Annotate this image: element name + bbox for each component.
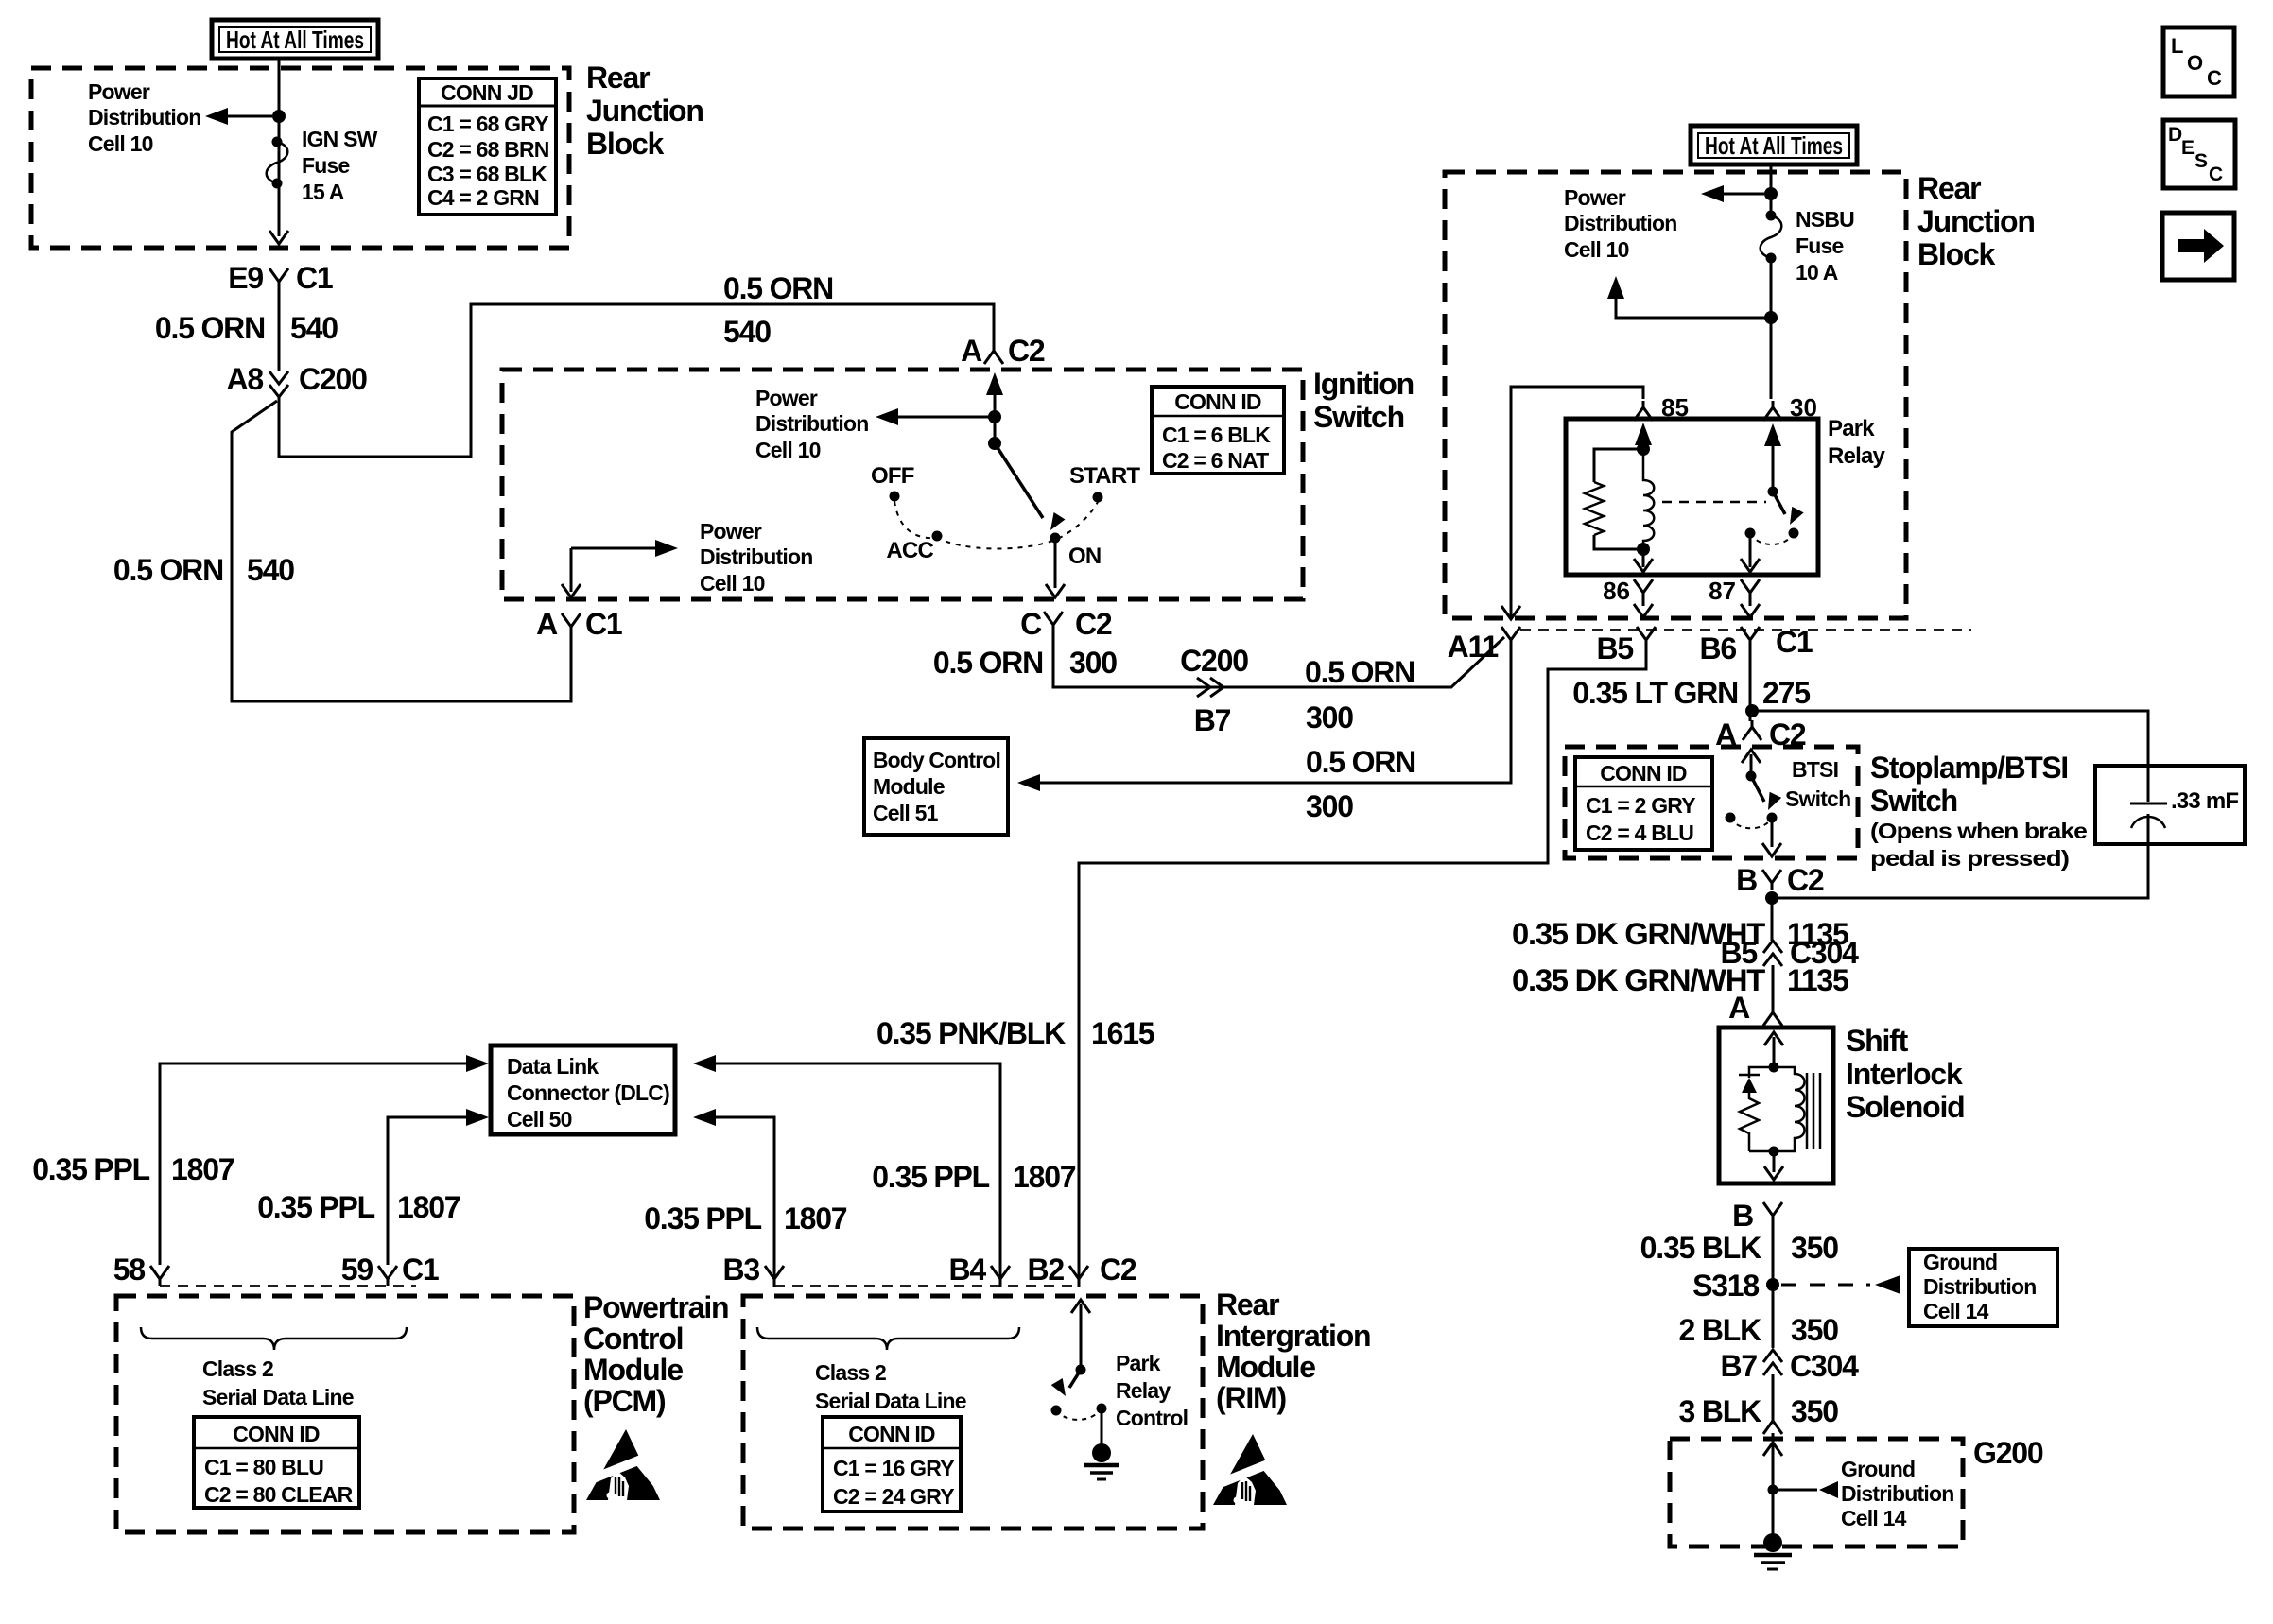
svg-text:CONN ID: CONN ID xyxy=(848,1422,935,1446)
svg-text:C: C xyxy=(1020,607,1042,641)
svg-text:0.5 ORN: 0.5 ORN xyxy=(723,271,833,305)
svg-text:3 BLK: 3 BLK xyxy=(1679,1394,1762,1428)
connector 58 xyxy=(113,1253,169,1287)
A11 entry arrow at block edge xyxy=(1501,606,1520,619)
label Park Relay Control xyxy=(1116,1351,1188,1430)
svg-text:Power: Power xyxy=(88,79,150,104)
Stoplamp/BTSI dashed box xyxy=(1565,747,1858,858)
svg-text:CONN ID: CONN ID xyxy=(1174,389,1261,414)
wire A8 branch to ignition switch A C1 (0.5 ORN 540) xyxy=(232,401,571,701)
svg-text:G200: G200 xyxy=(1973,1436,2043,1470)
text NSBU Fuse 10 A xyxy=(1796,207,1854,285)
BTSI output wire, arrow at box bottom xyxy=(1771,818,1774,847)
connector A / C2 (ignition input) xyxy=(961,334,1045,368)
resistor loop (left) xyxy=(1594,449,1643,482)
svg-text:CONN JD: CONN JD xyxy=(441,80,533,105)
ESD symbol (RIM) xyxy=(1213,1434,1289,1505)
wire to capacitor (top leg) xyxy=(1752,711,2148,802)
coil output down, arrow at box bottom xyxy=(1642,549,1645,567)
label 0.35 LT GRN 275 xyxy=(1572,676,1810,710)
svg-text:Ignition: Ignition xyxy=(1313,367,1414,401)
svg-text:Control: Control xyxy=(583,1322,683,1356)
mechanical link dashed xyxy=(1662,501,1766,504)
CONN ID table (BTSI) xyxy=(1575,757,1712,850)
wire into solenoid xyxy=(1772,1026,1775,1028)
solenoid entry arrow up xyxy=(1773,1037,1776,1067)
label Rear Intergration Module (RIM) xyxy=(1216,1287,1370,1415)
text Power Distribution Cell 10 (ignition lower) xyxy=(700,519,812,596)
svg-text:B2: B2 xyxy=(1027,1253,1064,1287)
connector A11 xyxy=(1448,627,1520,664)
svg-text:Rear: Rear xyxy=(1216,1287,1279,1322)
dashed contact arc xyxy=(1056,1408,1102,1420)
label Shift Interlock Solenoid xyxy=(1846,1024,1965,1124)
svg-text:A: A xyxy=(1728,991,1750,1025)
svg-text:C200: C200 xyxy=(299,362,367,396)
coil bottom node dot xyxy=(1637,543,1650,556)
switch arm with arrow xyxy=(1069,1370,1081,1388)
text Class 2 Serial Data Line (RIM) xyxy=(815,1360,966,1413)
svg-text:Distribution: Distribution xyxy=(755,411,868,436)
svg-text:Class 2: Class 2 xyxy=(202,1356,273,1381)
relay pin 87 chevron and arrow to block edge xyxy=(1741,579,1760,599)
svg-text:Control: Control xyxy=(1116,1406,1188,1430)
arrow to Power Distribution (right top) xyxy=(1723,193,1764,196)
resistor zigzag (solenoid) xyxy=(1740,1093,1759,1151)
svg-text:ACC: ACC xyxy=(886,538,933,563)
connector A / C2 (BTSI input) xyxy=(1715,717,1806,752)
dashed wire to ground distribution xyxy=(1781,1284,1870,1287)
svg-text:Switch: Switch xyxy=(1313,400,1404,434)
thin dashed connector line C1 row xyxy=(1520,629,1971,631)
svg-text:D: D xyxy=(2168,124,2182,146)
OFF contact xyxy=(890,492,900,502)
svg-text:0.5 ORN: 0.5 ORN xyxy=(155,311,265,345)
svg-text:C304: C304 xyxy=(1790,1349,1859,1383)
wire from Hot box down through block xyxy=(278,57,281,236)
text Power Distribution Cell 10 (top left) xyxy=(88,79,200,156)
svg-text:C2 = 80 CLEAR: C2 = 80 CLEAR xyxy=(204,1482,354,1507)
diode triangle xyxy=(1742,1078,1757,1093)
label 0.5 ORN 540 (left vertical) xyxy=(113,553,294,587)
svg-text:IGN SW: IGN SW xyxy=(302,127,378,151)
svg-text:C1: C1 xyxy=(1776,625,1813,659)
svg-text:Connector (DLC): Connector (DLC) xyxy=(507,1080,669,1105)
solenoid core lines xyxy=(1807,1073,1820,1149)
svg-text:Cell 14: Cell 14 xyxy=(1923,1299,1989,1323)
G200 dashed box xyxy=(1670,1439,1963,1546)
svg-text:300: 300 xyxy=(1069,646,1117,680)
svg-text:Intergration: Intergration xyxy=(1216,1319,1370,1353)
label 0.5 ORN 300 (below C C2) xyxy=(933,646,1117,680)
START contact xyxy=(1093,492,1103,503)
label 0.5 ORN 300 (BCM wire) xyxy=(1306,745,1415,823)
label 0.35 PPL 1807 (right) xyxy=(872,1160,1076,1194)
node dot branch to power distribution arrow up xyxy=(1764,311,1778,324)
svg-text:Interlock: Interlock xyxy=(1846,1057,1963,1091)
svg-text:Serial Data Line: Serial Data Line xyxy=(815,1389,966,1413)
svg-text:15 A: 15 A xyxy=(302,180,344,204)
svg-text:Power: Power xyxy=(755,386,818,410)
ACC feed L-wire with arrows (lower power distribution) xyxy=(571,548,662,592)
svg-text:C200: C200 xyxy=(1180,644,1248,678)
svg-text:Switch: Switch xyxy=(1785,786,1850,811)
svg-text:B3: B3 xyxy=(722,1253,759,1287)
label Ignition Switch xyxy=(1313,367,1414,434)
inline connector C200 B7 (>> on wire) xyxy=(1180,644,1248,737)
arrow down at block bottom edge xyxy=(269,231,288,244)
svg-text:A8: A8 xyxy=(226,362,263,396)
svg-text:540: 540 xyxy=(290,311,338,345)
svg-text:C2 = 4 BLU: C2 = 4 BLU xyxy=(1586,821,1693,845)
Powertrain Control Module dashed box xyxy=(116,1296,574,1532)
svg-text:Power: Power xyxy=(700,519,762,544)
label Powertrain Control Module (PCM) xyxy=(583,1290,728,1418)
capacitor symbol .33 mF xyxy=(2130,788,2238,844)
switch arm to ON xyxy=(995,443,1043,518)
svg-text:1135: 1135 xyxy=(1787,963,1848,997)
svg-text:540: 540 xyxy=(247,553,294,587)
svg-text:Class 2: Class 2 xyxy=(815,1360,886,1385)
svg-text:87: 87 xyxy=(1709,577,1736,605)
relay pin 30 chevron xyxy=(1763,401,1782,421)
solenoid output arrow down xyxy=(1773,1151,1776,1172)
Rear Intergration Module dashed box xyxy=(743,1296,1203,1529)
wire B5 C304 down to solenoid A xyxy=(1772,965,1775,1006)
svg-text:C1 = 2 GRY: C1 = 2 GRY xyxy=(1586,793,1695,818)
svg-text:2 BLK: 2 BLK xyxy=(1679,1313,1762,1347)
svg-text:Shift: Shift xyxy=(1846,1024,1909,1058)
label BTSI Switch xyxy=(1785,757,1850,811)
wire ON down to C C2, arrow down xyxy=(1054,543,1057,588)
RIM connector row: thin dashed xyxy=(774,1285,1079,1287)
svg-text:A: A xyxy=(536,607,558,641)
svg-text:C1: C1 xyxy=(585,607,622,641)
CONN ID table (PCM) xyxy=(194,1417,359,1508)
Hot At All Times box (left) xyxy=(212,20,378,59)
connector B4 xyxy=(948,1253,1010,1287)
svg-text:C2 = 68 BRN: C2 = 68 BRN xyxy=(427,137,549,162)
svg-text:C2: C2 xyxy=(1787,863,1824,897)
wire PCM 58 to DLC (0.35 PPL 1807) xyxy=(160,1063,466,1265)
wire B6 down to A C2 xyxy=(1749,647,1752,721)
solenoid bottom node dot xyxy=(1769,1147,1779,1157)
svg-text:350: 350 xyxy=(1791,1231,1838,1265)
connector B3 xyxy=(722,1253,784,1287)
node: switch pivot dot xyxy=(988,437,1001,450)
connector A (solenoid input) xyxy=(1728,991,1782,1026)
svg-text:CONN ID: CONN ID xyxy=(1600,761,1687,786)
ESD symbol (PCM) xyxy=(586,1429,662,1500)
svg-text:350: 350 xyxy=(1791,1313,1838,1347)
svg-text:Data Link: Data Link xyxy=(507,1054,599,1079)
svg-text:0.5 ORN: 0.5 ORN xyxy=(113,553,223,587)
wire A C2 into switch, arrow up xyxy=(994,378,997,443)
svg-text:Relay: Relay xyxy=(1116,1378,1171,1403)
ground symbol G200 xyxy=(1754,1533,1792,1569)
splice S318 xyxy=(1692,1269,1779,1303)
switch output down, arrow at box bottom xyxy=(1749,533,1752,567)
svg-text:Cell 10: Cell 10 xyxy=(755,438,821,462)
connector A8 / C200 xyxy=(226,362,367,397)
svg-text:Power: Power xyxy=(1564,185,1626,210)
svg-text:Park: Park xyxy=(1116,1351,1161,1375)
svg-text:Body Control: Body Control xyxy=(873,748,1000,772)
svg-text:START: START xyxy=(1069,463,1140,489)
wire into G200 with arrow xyxy=(1772,1433,1775,1543)
svg-text:S: S xyxy=(2195,150,2208,172)
svg-text:Module: Module xyxy=(1216,1350,1315,1384)
connector B5 / C304 xyxy=(1720,936,1859,970)
brace class 2 (PCM) xyxy=(141,1327,407,1350)
ignition switch dashed box xyxy=(502,370,1303,599)
svg-text:Rear: Rear xyxy=(586,60,650,95)
wire A8 to ignition switch A C2 (0.5 ORN 540) xyxy=(279,304,994,457)
svg-text:0.35 PPL: 0.35 PPL xyxy=(257,1190,374,1224)
svg-text:B: B xyxy=(1732,1199,1753,1233)
label 0.35 DK GRN/WHT 1135 (lower) xyxy=(1512,963,1848,997)
svg-text:E: E xyxy=(2181,137,2195,159)
connector E9 / C1 xyxy=(228,261,333,295)
svg-text:B7: B7 xyxy=(1194,703,1231,737)
svg-text:A: A xyxy=(961,334,982,368)
fuse NSBU 10 A xyxy=(1761,211,1782,264)
BTSI switch: entry arrow up xyxy=(1750,754,1753,776)
label 0.35 DK GRN/WHT 1135 (upper) xyxy=(1512,917,1848,951)
relay switch branch: entry arrow up at 30 xyxy=(1772,428,1775,492)
label 0.35 PPL 1807 (far left) xyxy=(32,1152,234,1186)
svg-text:300: 300 xyxy=(1306,700,1353,734)
wire A11 down to BCM line xyxy=(1040,647,1511,783)
node: battery feed dot xyxy=(988,410,1001,423)
node dot inside G200 xyxy=(1768,1485,1778,1495)
svg-text:(Opens when brake: (Opens when brake xyxy=(1870,819,2087,843)
arrowhead at ground distribution box xyxy=(1875,1275,1900,1294)
svg-text:Ground: Ground xyxy=(1841,1457,1915,1481)
CONN ID table (ignition) xyxy=(1152,387,1284,474)
svg-text:Distribution: Distribution xyxy=(700,544,812,569)
svg-text:S318: S318 xyxy=(1692,1269,1759,1303)
CONN JD table xyxy=(419,78,556,215)
svg-text:0.35 LT GRN: 0.35 LT GRN xyxy=(1572,676,1738,710)
wire 85 feed from A11 xyxy=(1511,387,1643,619)
svg-text:B7: B7 xyxy=(1720,1349,1757,1383)
switch arm with arrow xyxy=(1773,492,1785,514)
DESC icon box xyxy=(2163,120,2235,188)
svg-text:0.5 ORN: 0.5 ORN xyxy=(933,646,1043,680)
wire arrow to Power Distribution (left) xyxy=(227,115,272,118)
label 0.35 BLK 350 xyxy=(1640,1231,1839,1265)
svg-text:Module: Module xyxy=(583,1353,683,1387)
relay coil xyxy=(1643,449,1654,549)
svg-text:10 A: 10 A xyxy=(1796,260,1838,285)
svg-text:.33 mF: .33 mF xyxy=(2171,788,2238,814)
svg-text:Serial Data Line: Serial Data Line xyxy=(202,1385,354,1409)
svg-text:1615: 1615 xyxy=(1091,1016,1154,1050)
BTSI pivot dot xyxy=(1746,771,1757,782)
connector B6 / C1 xyxy=(1699,625,1812,665)
svg-text:1807: 1807 xyxy=(171,1152,234,1186)
svg-text:pedal is pressed): pedal is pressed) xyxy=(1870,846,2069,871)
fuse IGN SW 15 A xyxy=(267,137,288,189)
svg-text:Module: Module xyxy=(873,774,945,799)
connector chevron into G200 xyxy=(1763,1414,1782,1434)
svg-text:0.35 PPL: 0.35 PPL xyxy=(872,1160,989,1194)
label Rear Junction Block (right) xyxy=(1917,171,2035,271)
svg-text:(PCM): (PCM) xyxy=(583,1384,666,1418)
svg-text:OFF: OFF xyxy=(871,463,914,489)
svg-text:0.5 ORN: 0.5 ORN xyxy=(1305,655,1414,689)
svg-text:C2: C2 xyxy=(1075,607,1112,641)
ground symbol (RIM) xyxy=(1084,1443,1119,1479)
svg-text:1807: 1807 xyxy=(1013,1160,1076,1194)
svg-text:C1 = 16 GRY: C1 = 16 GRY xyxy=(833,1456,954,1480)
svg-text:O: O xyxy=(2187,51,2203,75)
Ground Distribution Cell 14 box (upper) xyxy=(1909,1249,2057,1326)
svg-text:Junction: Junction xyxy=(586,94,703,128)
svg-text:B6: B6 xyxy=(1699,631,1736,665)
text IGN SW Fuse 15 A xyxy=(302,127,378,204)
node: junction dot above A C2 xyxy=(1745,704,1759,717)
BTSI switch arm xyxy=(1751,776,1764,802)
ON contact xyxy=(1050,533,1061,544)
svg-text:Cell 10: Cell 10 xyxy=(1564,237,1629,262)
wire below fuse xyxy=(1770,258,1773,399)
svg-text:Cell 10: Cell 10 xyxy=(88,131,153,156)
svg-text:Powertrain: Powertrain xyxy=(583,1290,728,1324)
svg-text:350: 350 xyxy=(1791,1394,1838,1428)
svg-text:C4 = 2 GRN: C4 = 2 GRN xyxy=(427,185,539,210)
svg-text:275: 275 xyxy=(1762,676,1810,710)
node: junction dot to power distribution xyxy=(272,110,286,123)
BTSI contacts xyxy=(1726,813,1736,823)
svg-text:NSBU: NSBU xyxy=(1796,207,1854,232)
dashed detent arc OFF-ACC-ON-START xyxy=(894,501,1098,549)
svg-text:Fuse: Fuse xyxy=(302,153,349,178)
capacitor box xyxy=(2095,766,2245,844)
svg-text:540: 540 xyxy=(723,315,771,349)
wire capacitor bottom leg xyxy=(1772,844,2148,898)
svg-text:C2: C2 xyxy=(1008,334,1045,368)
relay pin 86 chevron and arrow to block edge xyxy=(1634,579,1653,599)
label 0.35 PPL 1807 (second) xyxy=(257,1190,460,1224)
LOC icon box xyxy=(2163,27,2234,96)
svg-text:Cell 51: Cell 51 xyxy=(873,801,939,825)
park relay box xyxy=(1566,419,1818,575)
arrow icon box xyxy=(2162,213,2234,280)
wire RIM B3 to DLC (0.35 PPL 1807) xyxy=(716,1117,774,1287)
svg-text:C2 = 24 GRY: C2 = 24 GRY xyxy=(833,1484,954,1509)
connector B7 / C304 xyxy=(1720,1349,1859,1383)
svg-text:Distribution: Distribution xyxy=(1841,1481,1953,1506)
text Ground Distribution Cell 14 (G200) xyxy=(1841,1457,1953,1530)
coil top node dot xyxy=(1637,442,1650,456)
svg-text:Solenoid: Solenoid xyxy=(1846,1090,1965,1124)
svg-text:300: 300 xyxy=(1306,789,1353,823)
svg-text:C: C xyxy=(2207,66,2222,90)
svg-text:Rear: Rear xyxy=(1917,171,1981,205)
relay pin 85 chevron xyxy=(1634,401,1653,421)
label 0.35 PNK/BLK 1615 xyxy=(876,1016,1154,1050)
wire contact to ground xyxy=(1101,1408,1103,1446)
label Rear Junction Block (left) xyxy=(586,60,703,161)
svg-text:Junction: Junction xyxy=(1917,204,2035,238)
svg-text:C1 = 68 GRY: C1 = 68 GRY xyxy=(427,112,548,136)
svg-text:Ground: Ground xyxy=(1923,1250,1997,1274)
text Power Distribution Cell 10 (ignition upper) xyxy=(755,386,868,462)
svg-text:0.35 PPL: 0.35 PPL xyxy=(644,1201,761,1235)
CONN ID table (RIM) xyxy=(823,1417,961,1512)
node: junction dot below B C2 xyxy=(1765,891,1778,905)
svg-text:Cell 14: Cell 14 xyxy=(1841,1506,1907,1530)
label 2 BLK 350 xyxy=(1679,1313,1839,1347)
connector B (solenoid output) xyxy=(1732,1199,1782,1233)
wire PCM 59 to DLC (0.35 PPL 1807) xyxy=(388,1117,466,1265)
wire down to B5 C304 xyxy=(1771,898,1774,941)
contacts xyxy=(1051,1406,1062,1416)
Hot At All Times box (right) xyxy=(1691,126,1857,164)
Body Control Module box xyxy=(864,738,1008,835)
svg-text:Cell 50: Cell 50 xyxy=(507,1107,572,1132)
brace class 2 (RIM) xyxy=(757,1327,1019,1350)
label 3 BLK 350 xyxy=(1679,1394,1839,1428)
park relay control switch: entry arrow up xyxy=(1080,1304,1083,1370)
svg-text:Fuse: Fuse xyxy=(1796,233,1843,258)
label Park Relay xyxy=(1828,416,1885,469)
wire from Hot box 2 down xyxy=(1770,163,1773,216)
svg-text:Cell 10: Cell 10 xyxy=(700,571,765,596)
svg-text:Park: Park xyxy=(1828,416,1875,441)
svg-text:86: 86 xyxy=(1603,577,1630,605)
svg-text:Relay: Relay xyxy=(1828,443,1885,469)
diode+resistor branch (left) xyxy=(1749,1067,1774,1078)
svg-text:Switch: Switch xyxy=(1870,784,1957,818)
svg-text:Block: Block xyxy=(586,127,665,161)
svg-text:ON: ON xyxy=(1068,544,1101,569)
arrow to Power Distribution (ignition, upper) xyxy=(898,416,995,419)
relay coil branch: entry arrow up xyxy=(1642,428,1645,449)
diode bar xyxy=(1739,1074,1760,1077)
rear junction block dashed box (left) xyxy=(31,68,569,248)
svg-text:Hot At All Times: Hot At All Times xyxy=(226,26,364,54)
svg-text:B5: B5 xyxy=(1596,631,1633,665)
rear junction block dashed box (right) xyxy=(1445,172,1906,618)
svg-text:Block: Block xyxy=(1917,237,1996,271)
text Power Distribution Cell 10 (right) xyxy=(1564,185,1676,262)
svg-text:59: 59 xyxy=(341,1253,373,1287)
wire E9 to A8 xyxy=(278,288,281,371)
label 0.5 ORN 300 (right of C200) xyxy=(1305,655,1414,734)
svg-text:CONN ID: CONN ID xyxy=(233,1422,320,1446)
svg-text:C1: C1 xyxy=(402,1253,439,1287)
connector B2 / C2 xyxy=(1027,1253,1136,1287)
svg-text:Stoplamp/BTSI: Stoplamp/BTSI xyxy=(1870,751,2068,785)
svg-text:BTSI: BTSI xyxy=(1792,757,1838,782)
svg-text:C1: C1 xyxy=(296,261,333,295)
solenoid coil (right branch) xyxy=(1774,1067,1805,1151)
connector B5 (C1) xyxy=(1596,627,1656,665)
wire to ground distribution arrow xyxy=(1773,1489,1817,1492)
PCM connector row: thin dashed xyxy=(160,1285,416,1287)
connector A / C1 (ignition ACC input) xyxy=(536,607,622,641)
svg-text:Hot At All Times: Hot At All Times xyxy=(1705,131,1843,160)
svg-text:L: L xyxy=(2171,34,2183,58)
switch contacts xyxy=(1789,528,1799,539)
svg-text:0.35 PNK/BLK: 0.35 PNK/BLK xyxy=(876,1016,1066,1050)
svg-text:E9: E9 xyxy=(228,261,263,295)
dashed contact arc xyxy=(1750,533,1794,544)
solenoid top node dot xyxy=(1769,1063,1779,1073)
